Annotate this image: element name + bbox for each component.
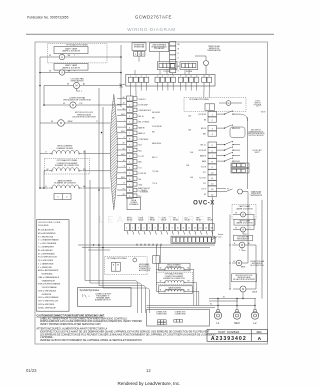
svg-text:M: M bbox=[242, 288, 244, 291]
svg-text:2: 2 bbox=[132, 227, 133, 229]
svg-text:BK: BK bbox=[204, 194, 206, 196]
svg-text:13: 13 bbox=[211, 189, 213, 191]
svg-text:M: M bbox=[241, 244, 243, 247]
svg-text:BRL: BRL bbox=[203, 134, 206, 136]
svg-text:BRL HI: BRL HI bbox=[201, 128, 206, 130]
svg-text:LAMPE & SOCKETS: LAMPE & SOCKETS bbox=[62, 66, 80, 69]
svg-text:ORANGE/NOIR: ORANGE/NOIR bbox=[38, 279, 55, 282]
svg-text:Rendered by LeadVenture, Inc.: Rendered by LeadVenture, Inc. bbox=[118, 381, 181, 386]
svg-text:BRL: BRL bbox=[152, 132, 155, 134]
svg-text:SONNERIE: SONNERIE bbox=[140, 192, 148, 194]
svg-text:12: 12 bbox=[188, 227, 190, 229]
svg-text:BK: BK bbox=[123, 194, 125, 196]
svg-text:12: 12 bbox=[146, 368, 151, 373]
svg-text:Y = YELLOW/JAUNE: Y = YELLOW/JAUNE bbox=[38, 242, 57, 245]
svg-text:BK: BK bbox=[123, 148, 125, 150]
svg-text:1: 1 bbox=[130, 76, 131, 78]
svg-text:BK/W: BK/W bbox=[121, 131, 125, 133]
svg-text:VERIFIEZ LE BON FONCTIONNEMENT: VERIFIEZ LE BON FONCTIONNEMENT DE L'APPA… bbox=[40, 339, 142, 342]
svg-text:SWITCH: SWITCH bbox=[254, 102, 261, 104]
svg-text:VENTILATEUR: VENTILATEUR bbox=[71, 80, 85, 83]
svg-text:MDL: MDL bbox=[173, 217, 176, 219]
svg-text:OPTIONAL/OPTIONNEL: OPTIONAL/OPTIONNEL bbox=[107, 257, 127, 260]
svg-text:MDL: MDL bbox=[139, 150, 142, 152]
svg-text:GY/BL= GREY/BLUE: GY/BL= GREY/BLUE bbox=[38, 307, 56, 309]
svg-text:T: T bbox=[250, 228, 251, 230]
svg-text:P9: P9 bbox=[227, 188, 229, 190]
svg-text:Symbols/Symboles: Symbols/Symboles bbox=[80, 290, 100, 292]
svg-text:DLB: DLB bbox=[139, 145, 142, 147]
svg-text:BL: BL bbox=[178, 66, 180, 68]
svg-text:CONNECTOR/: CONNECTOR/ bbox=[156, 312, 167, 314]
svg-text:GY = GREY/GRIS: GY = GREY/GRIS bbox=[38, 260, 54, 262]
svg-text:4: 4 bbox=[143, 227, 144, 229]
svg-text:ELEMENT DE CONVECTION: ELEMENT DE CONVECTION bbox=[55, 165, 80, 167]
svg-text:core: core bbox=[120, 86, 124, 89]
svg-text:L'APPAREIL.: L'APPAREIL. bbox=[40, 336, 54, 339]
svg-text:BL: BL bbox=[83, 152, 85, 154]
svg-text:W: W bbox=[49, 55, 51, 57]
svg-text:R = RED/ROUGE: R = RED/ROUGE bbox=[38, 236, 54, 238]
svg-text:W: W bbox=[117, 265, 119, 267]
svg-text:SW P9: SW P9 bbox=[255, 152, 260, 154]
svg-text:3: 3 bbox=[141, 76, 142, 78]
svg-text:O = ORANGE/ORANGE: O = ORANGE/ORANGE bbox=[38, 239, 59, 242]
svg-text:CONNECTE/B: CONNECTE/B bbox=[156, 313, 166, 315]
svg-text:L E A D V E N T U R E: L E A D V E N T U R E bbox=[99, 215, 206, 225]
svg-text:PART NUMBER: PART NUMBER bbox=[218, 331, 239, 334]
svg-text:DE LA PORTE DU MOTEUR: DE LA PORTE DU MOTEUR bbox=[233, 278, 256, 281]
svg-text:OPTIONAL/OPTIONNEL: OPTIONAL/OPTIONNEL bbox=[56, 159, 77, 162]
svg-text:14: 14 bbox=[211, 194, 213, 196]
svg-text:BR/W: BR/W bbox=[241, 267, 246, 269]
svg-text:BK: BK bbox=[123, 108, 125, 110]
svg-text:M: M bbox=[238, 262, 240, 265]
svg-text:BL: BL bbox=[248, 243, 250, 245]
svg-text:POWER/: POWER/ bbox=[130, 202, 137, 204]
svg-text:NEU: NEU bbox=[234, 321, 240, 325]
svg-text:TCO IN: TCO IN bbox=[201, 167, 206, 169]
svg-text:T: T bbox=[250, 213, 251, 215]
svg-text:M: M bbox=[76, 85, 78, 88]
svg-text:5: 5 bbox=[157, 76, 158, 78]
svg-text:BK/W = BROWN/WHITE: BK/W = BROWN/WHITE bbox=[38, 270, 59, 272]
svg-text:TCO W: TCO W bbox=[201, 188, 207, 190]
svg-text:12: 12 bbox=[196, 76, 198, 78]
svg-text:5: 5 bbox=[149, 227, 150, 229]
svg-text:DOOR SW: DOOR SW bbox=[198, 150, 206, 152]
svg-text:PU = PURPLE/VIOLET: PU = PURPLE/VIOLET bbox=[38, 257, 58, 259]
svg-text:OPTIONAL/OPTIONNEL: OPTIONAL/OPTIONNEL bbox=[66, 44, 89, 47]
svg-text:GY/R = GREY/RED: GY/R = GREY/RED bbox=[38, 304, 55, 306]
svg-text:LAMPE & SOCKETS: LAMPE & SOCKETS bbox=[236, 221, 253, 224]
svg-text:G = GREEN/VERT: G = GREEN/VERT bbox=[38, 247, 55, 249]
svg-text:OPTIONAL/OPTIONNEL: OPTIONAL/OPTIONNEL bbox=[189, 98, 209, 101]
svg-text:TCO 54: TCO 54 bbox=[152, 183, 157, 185]
svg-text:O/BK = ORANGE/BLACK: O/BK = ORANGE/BLACK bbox=[38, 276, 60, 279]
svg-text:T = TAN/BRONZE: T = TAN/BRONZE bbox=[38, 262, 54, 265]
svg-text:INTERRUPTEUR DE: INTERRUPTEUR DE bbox=[249, 131, 264, 133]
svg-text:DE LA PORTE DU MOTEUR: DE LA PORTE DU MOTEUR bbox=[72, 115, 96, 118]
svg-text:BK = BLACK/NOIR: BK = BLACK/NOIR bbox=[38, 229, 54, 232]
svg-text:DLB: DLB bbox=[185, 217, 188, 219]
svg-text:10: 10 bbox=[185, 76, 187, 78]
svg-text:13: 13 bbox=[194, 227, 196, 229]
svg-text:IN LINE: IN LINE bbox=[186, 71, 193, 73]
svg-text:Y: Y bbox=[124, 120, 125, 122]
svg-text:LAMPE & SOCKETS: LAMPE & SOCKETS bbox=[62, 50, 80, 53]
svg-text:NOMBRE DE P/N "X": NOMBRE DE P/N "X" bbox=[95, 300, 112, 302]
svg-text:WIRING ERRORS CAN CAUSE IMPROP: WIRING ERRORS CAN CAUSE IMPROPER AND DAN… bbox=[40, 320, 142, 323]
svg-text:SENSOR DE: SENSOR DE bbox=[251, 193, 260, 195]
svg-text:P5: P5 bbox=[257, 106, 259, 108]
svg-text:B/L: B/L bbox=[223, 296, 225, 298]
svg-text:BL: BL bbox=[83, 84, 85, 86]
svg-text:PU: PU bbox=[123, 188, 125, 190]
svg-text:REV.: REV. bbox=[257, 331, 263, 334]
svg-text:TCO OUT: TCO OUT bbox=[199, 178, 206, 180]
svg-text:COLOR CODE / CODE: COLOR CODE / CODE bbox=[38, 222, 61, 224]
svg-text:GY/Y = GREY/YELLOW: GY/Y = GREY/YELLOW bbox=[38, 301, 58, 303]
svg-text:ACCESSOIRE: ACCESSOIRE bbox=[139, 269, 151, 272]
svg-text:14: 14 bbox=[208, 76, 210, 78]
svg-text:DE CONVECTION: DE CONVECTION bbox=[250, 265, 264, 267]
svg-text:W: W bbox=[63, 103, 65, 105]
svg-text:CONNECTOR/: CONNECTOR/ bbox=[175, 312, 186, 314]
svg-text:A23393402: A23393402 bbox=[211, 336, 247, 342]
svg-text:6: 6 bbox=[162, 76, 163, 78]
svg-text:BRL: BRL bbox=[152, 118, 155, 120]
svg-text:ELEMENT DE CONVECTION: ELEMENT DE CONVECTION bbox=[163, 278, 185, 280]
svg-text:1: 1 bbox=[126, 227, 127, 229]
svg-text:LINE IN L1: LINE IN L1 bbox=[139, 99, 147, 101]
svg-text:BRL LO: BRL LO bbox=[152, 157, 158, 159]
svg-text:WIRING DIAGRAM: WIRING DIAGRAM bbox=[127, 27, 176, 32]
svg-text:LES ERREURS DE CONNECTION DE F: LES ERREURS DE CONNECTION DE FILS PEUVEN… bbox=[40, 334, 217, 337]
svg-text:BR = BROWN/BRUN: BR = BROWN/BRUN bbox=[38, 233, 56, 235]
svg-text:13: 13 bbox=[203, 76, 205, 78]
svg-text:P = PINK/ROSE: P = PINK/ROSE bbox=[38, 267, 53, 269]
svg-text:NOIR/BLANC: NOIR/BLANC bbox=[38, 273, 54, 276]
svg-text:W: W bbox=[51, 121, 53, 123]
svg-text:W = WHITE/BLANC: W = WHITE/BLANC bbox=[38, 252, 56, 255]
svg-text:15: 15 bbox=[205, 227, 207, 229]
svg-text:3: 3 bbox=[138, 227, 139, 229]
svg-text:W: W bbox=[67, 84, 69, 86]
svg-text:DOOR SW: DOOR SW bbox=[198, 114, 206, 116]
svg-text:BK: BK bbox=[123, 143, 125, 145]
svg-text:BL = BLUE/BLEU: BL = BLUE/BLEU bbox=[38, 250, 53, 252]
svg-text:PORTE DU MOTEUR: PORTE DU MOTEUR bbox=[248, 135, 264, 137]
svg-text:BEL SWITCH: BEL SWITCH bbox=[251, 130, 260, 132]
svg-text:DRLM: DRLM bbox=[252, 291, 258, 293]
svg-text:8: 8 bbox=[173, 76, 174, 78]
svg-text:7: 7 bbox=[160, 227, 161, 229]
svg-text:BL: BL bbox=[123, 103, 125, 105]
svg-text:OVC-X: OVC-X bbox=[193, 200, 215, 206]
svg-text:BK: BK bbox=[123, 97, 125, 99]
svg-text:BROIL: BROIL bbox=[127, 217, 132, 219]
svg-text:W: W bbox=[47, 169, 49, 171]
svg-text:core: core bbox=[218, 237, 222, 239]
svg-text:ATTENTION/COUPEZ L'ALIMENTATIO: ATTENTION/COUPEZ L'ALIMENTATION AVANT D'… bbox=[37, 327, 108, 330]
svg-text:9: 9 bbox=[180, 76, 181, 78]
svg-text:BL: BL bbox=[123, 160, 125, 162]
svg-text:DOOR SW: DOOR SW bbox=[139, 173, 147, 175]
svg-text:9: 9 bbox=[172, 227, 173, 229]
svg-text:OPTIONAL/OPTIONNEL: OPTIONAL/OPTIONNEL bbox=[165, 273, 184, 276]
svg-text:ELEMENT DE BRIL: ELEMENT DE BRIL bbox=[57, 148, 74, 150]
svg-text:6: 6 bbox=[155, 227, 156, 229]
svg-text:W: W bbox=[49, 71, 51, 73]
svg-text:M: M bbox=[60, 122, 62, 125]
svg-text:7: 7 bbox=[167, 76, 168, 78]
svg-text:BRL HI: BRL HI bbox=[139, 116, 144, 118]
svg-text:T: T bbox=[124, 126, 125, 128]
svg-text:L1 OUT: L1 OUT bbox=[139, 156, 144, 158]
svg-text:BK/W: BK/W bbox=[121, 177, 125, 179]
svg-text:2: 2 bbox=[135, 76, 136, 78]
svg-text:BK/W: BK/W bbox=[121, 114, 125, 116]
svg-text:VIOLET/ORANGE: VIOLET/ORANGE bbox=[38, 286, 57, 289]
svg-text:DOOR LIMIT: DOOR LIMIT bbox=[252, 150, 261, 152]
svg-text:P: P bbox=[124, 137, 125, 139]
svg-text:GY/O = GREY/ORANGE: GY/O = GREY/ORANGE bbox=[38, 296, 59, 299]
svg-text:BRL LO: BRL LO bbox=[201, 145, 207, 147]
svg-text:14: 14 bbox=[199, 227, 201, 229]
svg-text:A: A bbox=[258, 336, 262, 342]
svg-text:NEU: NEU bbox=[139, 162, 142, 164]
svg-text:BK/W: BK/W bbox=[121, 154, 125, 156]
svg-text:11: 11 bbox=[190, 76, 192, 78]
svg-text:PU/B = PURPLE/ORANGE: PU/B = PURPLE/ORANGE bbox=[38, 283, 61, 286]
svg-text:16: 16 bbox=[211, 227, 213, 229]
svg-text:VERIFY PROPER OPERATION AFTER: VERIFY PROPER OPERATION AFTER SERVICING … bbox=[40, 323, 101, 326]
svg-text:GCWD2767AFE: GCWD2767AFE bbox=[135, 15, 172, 20]
svg-text:Y: Y bbox=[124, 171, 125, 173]
svg-text:GRIS/NOIR: GRIS/NOIR bbox=[38, 294, 52, 296]
svg-text:4: 4 bbox=[146, 76, 147, 78]
svg-text:IDENTIFIEZ TOUS LES FILS AVANT: IDENTIFIEZ TOUS LES FILS AVANT DE LES DE… bbox=[40, 330, 210, 333]
svg-text:T: T bbox=[239, 250, 240, 252]
svg-text:10: 10 bbox=[177, 227, 179, 229]
svg-text:Publication No. 5995732855: Publication No. 5995732855 bbox=[27, 16, 69, 20]
svg-text:VENTILATEUR DE CONVECTION: VENTILATEUR DE CONVECTION bbox=[63, 99, 91, 102]
svg-text:LABEL ALL WIRES PRIOR TO DISCO: LABEL ALL WIRES PRIOR TO DISCONNECTION W… bbox=[40, 317, 128, 320]
svg-text:CONNECTE/W: CONNECTE/W bbox=[175, 313, 186, 315]
svg-text:ELEMENT DE CUISSON: ELEMENT DE CUISSON bbox=[54, 183, 76, 185]
svg-text:GY/B = GREY/BLACK: GY/B = GREY/BLACK bbox=[38, 289, 57, 292]
svg-text:BK/W: BK/W bbox=[68, 121, 73, 123]
svg-text:LAMPE & SOCKETS: LAMPE & SOCKETS bbox=[236, 207, 253, 210]
svg-text:TUB W: TUB W bbox=[261, 112, 266, 114]
svg-text:TEMP PROBE: TEMP PROBE bbox=[251, 191, 261, 193]
svg-text:8: 8 bbox=[166, 227, 167, 229]
svg-text:11: 11 bbox=[182, 227, 184, 229]
svg-text:01/23: 01/23 bbox=[26, 368, 37, 373]
svg-text:CONVECTION ELEMENT: CONVECTION ELEMENT bbox=[165, 276, 184, 278]
svg-text:TEMPERATURE: TEMPERATURE bbox=[207, 49, 221, 52]
svg-text:COULEUR: COULEUR bbox=[38, 225, 49, 227]
svg-text:B/L: B/L bbox=[210, 304, 212, 306]
svg-text:M: M bbox=[72, 104, 74, 107]
